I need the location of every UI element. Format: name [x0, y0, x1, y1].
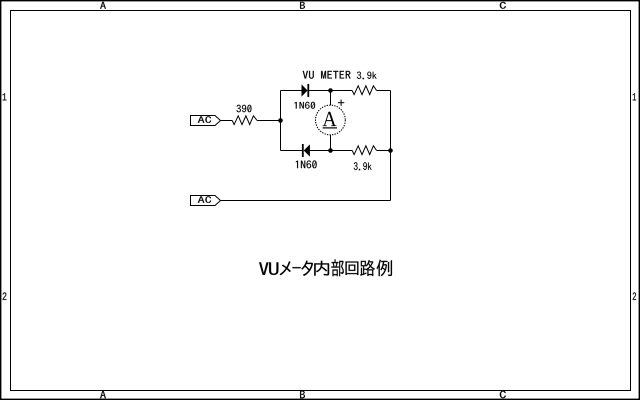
diode D2 1N60 (bottom, pointing left) [302, 144, 310, 157]
wire meter bottom stub [330, 135, 332, 151]
wire R390 to node [257, 120, 280, 122]
wire top rail left [281, 90, 302, 92]
title caption VU meter internal circuit example [259, 259, 392, 276]
wire top rail middle [309, 90, 352, 92]
value label 390 [237, 105, 252, 113]
wire bottom rail left [281, 150, 302, 152]
value label 3.9k (bottom) [354, 162, 372, 170]
resistor R1 390 [232, 116, 257, 125]
polarity + mark [338, 100, 344, 106]
node junction (top, meter +) [328, 88, 333, 93]
resistor R3 3.9k (bottom) [352, 146, 376, 155]
value label 3.9k (top) [357, 72, 377, 80]
meter U1 ammeter (VU METER) [316, 105, 346, 135]
connector AC2 (AC return) [191, 196, 221, 206]
node junction (right) [388, 148, 393, 153]
connector AC1 (AC input) [191, 116, 221, 126]
label 1N60 (bottom) [296, 160, 317, 168]
wire top rail right [377, 90, 391, 92]
wire bottom rail middle [310, 150, 352, 152]
diode D1 1N60 (top, pointing right) [302, 84, 310, 97]
label 1N60 (top) [295, 102, 316, 109]
wire AC1 to R390 [221, 120, 233, 122]
wire AC2 return [221, 200, 391, 202]
resistor R2 3.9k (top) [352, 86, 376, 95]
wire bottom rail right [377, 150, 391, 152]
node junction (bottom, meter -) [328, 148, 333, 153]
wire left vertical [280, 91, 282, 151]
wire meter top stub [330, 91, 332, 106]
label VU METER [303, 71, 351, 79]
wire right vertical [390, 91, 392, 201]
node junction (left) [278, 118, 283, 123]
